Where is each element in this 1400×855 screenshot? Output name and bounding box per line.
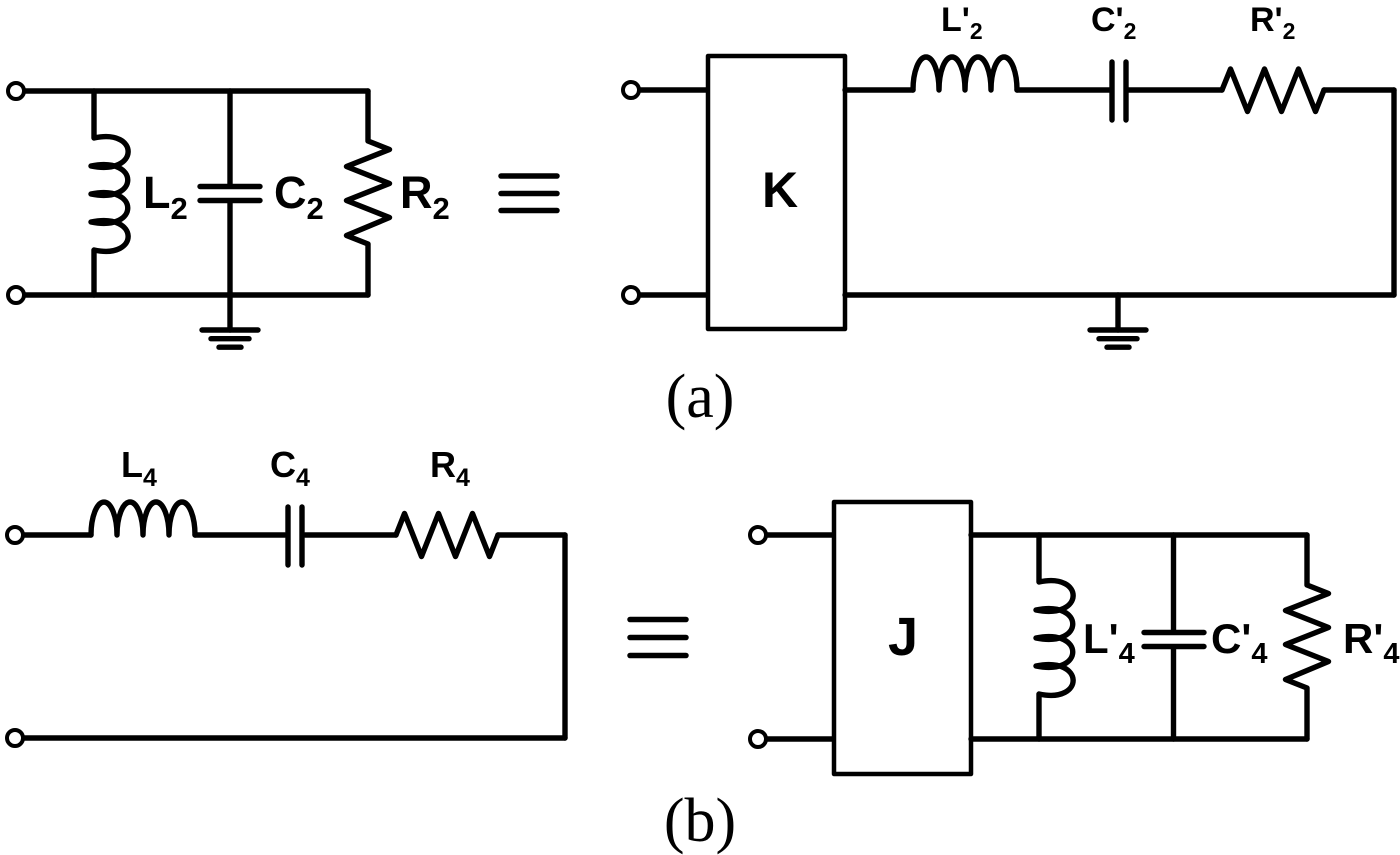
- wire top rail b-right: [971, 532, 1307, 537]
- wire L4 to C4: [195, 532, 285, 537]
- terminal a-left bottom: [8, 287, 24, 303]
- wire R'2 to right edge: [1324, 87, 1394, 92]
- K inverter box: [708, 56, 845, 329]
- wire R4 to right edge: [498, 532, 565, 537]
- wire terminal to K bottom: [639, 292, 708, 297]
- wire bottom rail b-right: [971, 736, 1307, 741]
- resistor R'2: [1222, 69, 1324, 112]
- wire terminal to J top: [766, 532, 834, 537]
- terminal b-left bottom: [7, 730, 23, 746]
- inductor L'4: [1036, 535, 1073, 739]
- inductor L'2: [913, 57, 1017, 90]
- capacitor C4: [285, 507, 290, 565]
- capacitor C2: [227, 91, 232, 184]
- terminal b-right bottom: [750, 731, 766, 747]
- svg-text:J: J: [888, 607, 918, 667]
- wire terminal to L4: [24, 532, 91, 537]
- svg-text:K: K: [762, 162, 798, 218]
- wire top rail a-left: [25, 88, 368, 93]
- wire right edge down b-left: [562, 535, 567, 738]
- equiv bars a: [501, 176, 557, 211]
- equiv bars b: [630, 620, 686, 656]
- wire terminal to J bottom: [766, 736, 834, 741]
- wire right edge down: [1391, 90, 1396, 295]
- ground (a-left): [202, 327, 258, 332]
- capacitor C'2: [1109, 62, 1114, 120]
- wire C4 to R4: [305, 532, 396, 537]
- wire bottom rail b-left: [24, 735, 565, 740]
- resistor R2: [347, 91, 390, 295]
- resistor R4: [396, 514, 498, 557]
- inductor L4: [91, 502, 195, 535]
- wire bottom rail a-right: [845, 292, 1394, 297]
- ground (a-right): [1115, 295, 1120, 330]
- capacitor C'4: [1171, 535, 1176, 630]
- inductor L2: [91, 91, 128, 295]
- wire L'2 to C'2: [1017, 87, 1110, 92]
- resistor R'4: [1286, 535, 1329, 739]
- svg-text:(b): (b): [664, 787, 736, 855]
- J inverter box: [834, 502, 971, 774]
- terminal a-left top: [8, 83, 24, 99]
- terminal a-right bottom: [623, 287, 639, 303]
- wire terminal to K top: [639, 87, 708, 92]
- wire bottom rail a-left: [25, 292, 368, 297]
- terminal a-right top: [623, 82, 639, 98]
- wire K to L'2: [845, 87, 913, 92]
- terminal b-right top: [750, 527, 766, 543]
- terminal b-left top: [7, 527, 23, 543]
- svg-text:(a): (a): [666, 363, 735, 431]
- wire C'2 to R'2: [1128, 87, 1222, 92]
